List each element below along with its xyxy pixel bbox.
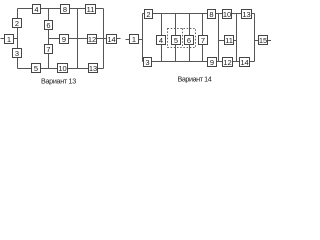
svg-text:12: 12: [223, 58, 231, 67]
svg-text:8: 8: [209, 10, 213, 19]
svg-text:9: 9: [62, 35, 66, 44]
svg-text:8: 8: [63, 5, 67, 14]
svg-text:13: 13: [242, 10, 250, 19]
svg-text:7: 7: [46, 45, 50, 54]
svg-text:14: 14: [107, 35, 115, 44]
svg-text:11: 11: [225, 36, 233, 45]
svg-text:12: 12: [88, 35, 96, 44]
svg-text:5: 5: [174, 36, 178, 45]
svg-text:15: 15: [259, 36, 267, 45]
svg-text:13: 13: [89, 64, 97, 73]
svg-text:2: 2: [15, 19, 19, 28]
svg-text:Вариант 14: Вариант 14: [178, 75, 212, 84]
svg-text:5: 5: [34, 64, 38, 73]
svg-text:14: 14: [240, 58, 248, 67]
svg-text:3: 3: [15, 49, 19, 58]
svg-text:Вариант 13: Вариант 13: [41, 77, 76, 86]
svg-text:2: 2: [146, 10, 150, 19]
svg-text:6: 6: [46, 21, 50, 30]
svg-text:9: 9: [210, 58, 214, 67]
svg-text:10: 10: [58, 64, 66, 73]
svg-text:1: 1: [7, 35, 11, 44]
svg-text:11: 11: [87, 5, 95, 14]
svg-text:10: 10: [223, 10, 231, 19]
svg-text:3: 3: [145, 58, 149, 67]
svg-text:4: 4: [34, 5, 38, 14]
svg-text:4: 4: [159, 36, 163, 45]
svg-text:6: 6: [187, 36, 191, 45]
svg-text:1: 1: [132, 35, 136, 44]
svg-text:7: 7: [201, 36, 205, 45]
